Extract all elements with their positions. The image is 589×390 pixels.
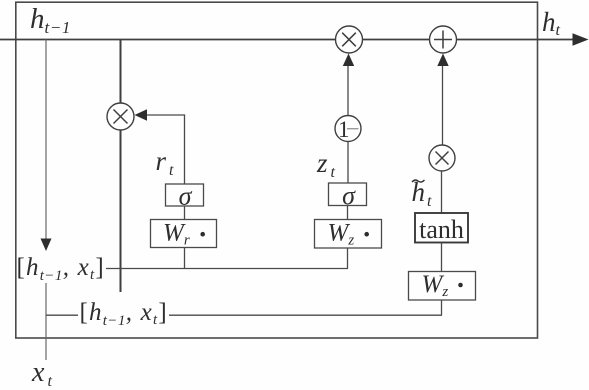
wire: candidate arrow up into add — [442, 66, 444, 145]
svg-text:[ht−1, xt]: [ht−1, xt] — [17, 254, 105, 284]
dot of W_r — [200, 232, 205, 237]
wire: sigma r to Wr — [184, 206, 186, 220]
wire: Wr down to concat bus — [184, 248, 186, 269]
wire: concat bus 2 — [169, 314, 442, 316]
wire: sigma z to Wz — [347, 206, 349, 220]
arrowhead up into multiply node — [343, 54, 354, 67]
svg-text:rt: rt — [156, 146, 175, 179]
multiply node on h line — [336, 26, 363, 53]
svg-text:1: 1 — [338, 117, 350, 142]
wire: left vertical below concat label down past box to x_t — [45, 283, 47, 360]
svg-text:[ht−1, xt]: [ht−1, xt] — [80, 299, 168, 329]
box tanh — [415, 213, 468, 243]
arrowhead right h_t — [573, 33, 589, 46]
dot of W_z bottom — [458, 283, 463, 288]
wire: candidate multiply down to tanh — [441, 171, 443, 213]
box W_z — [315, 220, 382, 249]
wire: main horizontal h line — [0, 39, 576, 41]
one-minus node — [335, 116, 361, 142]
svg-text:σ: σ — [342, 181, 356, 210]
reset multiply node — [107, 103, 134, 130]
wire: r gate elbow into reset multiply — [146, 115, 185, 184]
svg-text:zt: zt — [316, 148, 336, 181]
arrowhead up into add node — [437, 54, 448, 67]
wire: thick h_{t-1} vertical line — [120, 40, 122, 293]
svg-text:xt: xt — [31, 357, 52, 390]
outer cell box — [16, 2, 538, 338]
wire: left vertical from h line down — [45, 40, 47, 240]
wire: one-minus down to sigma z — [347, 142, 349, 184]
wire: Wz down to concat bus — [347, 248, 349, 269]
sigma box r — [166, 184, 204, 206]
wire: tanh to Wz2 — [441, 243, 443, 272]
arrowhead down into concat label — [41, 239, 52, 252]
box W_r — [151, 220, 217, 248]
sigma box z — [329, 183, 367, 206]
svg-text:tanh: tanh — [419, 215, 464, 244]
dot of W_z — [364, 232, 369, 237]
candidate multiply node — [429, 145, 455, 171]
svg-text:ht−1: ht−1 — [30, 3, 71, 37]
wire: concat bus 2 left stub — [46, 314, 78, 316]
svg-text:ht: ht — [542, 7, 561, 39]
wire: 1- arrow up into multiply — [347, 66, 349, 116]
svg-text:σ: σ — [179, 182, 193, 211]
wire: Wz2 down to concat bus 2 — [441, 300, 443, 315]
add node on h line — [430, 26, 457, 53]
wire: concat bus 1 — [106, 268, 348, 270]
tilde of h~ — [412, 180, 425, 182]
arrowhead left into reset multiply — [135, 109, 148, 120]
box W_z bottom — [409, 272, 476, 301]
